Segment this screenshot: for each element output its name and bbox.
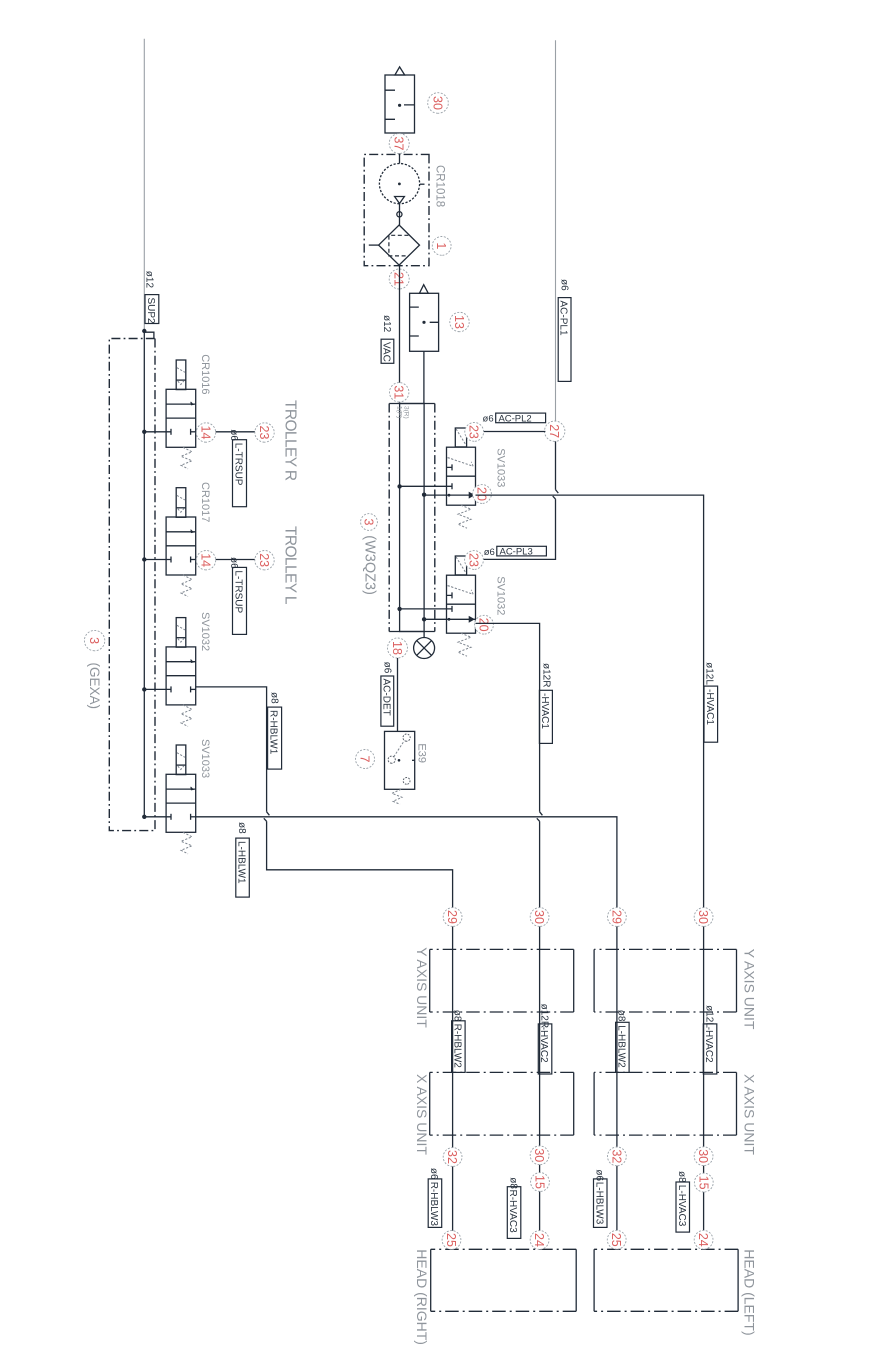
valve CR1016 body	[166, 389, 196, 447]
node	[397, 484, 401, 488]
svg-text:HEAD (LEFT): HEAD (LEFT)	[742, 1249, 758, 1335]
spring SV1033	[181, 832, 192, 854]
svg-text:31: 31	[392, 385, 406, 399]
svg-text:18: 18	[390, 641, 404, 655]
svg-text:ø6: ø6	[594, 1169, 605, 1181]
node bus junction SV1032	[142, 687, 146, 691]
label oe12L -HVAC1	[704, 662, 718, 742]
node	[422, 617, 426, 621]
balloon 23 PL3	[465, 551, 484, 570]
port circle small	[397, 212, 402, 217]
balloon 14	[196, 423, 215, 442]
balloon 25	[442, 1231, 461, 1250]
valve V1 ticks	[385, 90, 415, 119]
svg-text:L-TRSUP: L-TRSUP	[233, 570, 244, 613]
svg-text:AC-PL3: AC-PL3	[500, 547, 533, 558]
svg-text:30: 30	[696, 910, 710, 924]
valve SV1032 flow path	[144, 688, 171, 690]
svg-text:21: 21	[392, 272, 406, 286]
label oe6 L-HBLW3	[593, 1169, 607, 1227]
balloon 15	[531, 1173, 550, 1192]
label oe12L -HVAC2	[703, 1005, 717, 1074]
label oe12R -HVAC1	[539, 663, 552, 743]
svg-text:(GEXA): (GEXA)	[87, 663, 102, 710]
valve SV1033 body	[447, 447, 476, 505]
svg-text:L-HVAC3: L-HVAC3	[676, 1185, 687, 1227]
svg-text:L-HBLW3: L-HBLW3	[593, 1182, 604, 1225]
valve SV1032 body	[166, 647, 196, 705]
valve V2 ticks	[410, 307, 439, 336]
svg-text:HEAD (RIGHT): HEAD (RIGHT)	[414, 1249, 430, 1345]
svg-text:25: 25	[609, 1233, 623, 1247]
svg-text:X AXIS UNIT: X AXIS UNIT	[742, 1074, 758, 1155]
balloon 7	[356, 750, 375, 769]
manifold body	[400, 404, 425, 632]
svg-text:23: 23	[467, 425, 481, 439]
svg-text:ø6: ø6	[559, 279, 570, 291]
svg-text:1(P): 1(P)	[396, 406, 403, 418]
svg-text:SUP2: SUP2	[145, 298, 156, 325]
solenoid SV1033	[455, 428, 466, 447]
manifold end caps	[389, 404, 435, 632]
balloon 32	[608, 1147, 627, 1166]
wire SV1033R flow	[424, 494, 446, 496]
valve CR1016 flow path	[144, 431, 171, 433]
svg-text:TROLLEY L: TROLLEY L	[282, 526, 299, 605]
wire row-A line1	[452, 917, 454, 1249]
wire row-B line2	[703, 917, 705, 1249]
svg-text:X AXIS UNIT: X AXIS UNIT	[414, 1074, 430, 1155]
svg-text:ø8: ø8	[507, 1177, 518, 1189]
label oe6 AC-PL3 (rotated)	[484, 546, 547, 558]
node junction SUP2-to-bus	[142, 329, 146, 333]
wire CR1018 to manifold	[399, 266, 401, 404]
wire V1 to CR1018	[399, 133, 401, 164]
manifold boundary bottom (dash-dot)	[388, 404, 390, 632]
spring CR1017	[181, 575, 192, 597]
balloon 21	[389, 269, 409, 289]
balloon (3) left group	[84, 630, 104, 650]
valve SV1032 flow line	[447, 618, 476, 620]
wire SV1033R output	[476, 495, 704, 917]
svg-text:(W3QZ3): (W3QZ3)	[362, 535, 378, 595]
regulator gauge circle CR1018	[379, 164, 419, 204]
svg-text:30: 30	[431, 96, 445, 110]
regulator arrow	[395, 197, 405, 204]
svg-text:E39: E39	[416, 743, 428, 763]
label oe6 AC-DET	[380, 662, 393, 727]
svg-text:23: 23	[257, 426, 271, 440]
valve SV1033 flow line	[447, 494, 476, 496]
solenoid SV1033	[176, 745, 186, 775]
enclosure left valve group (dash-dot box)	[109, 339, 155, 831]
svg-text:20: 20	[477, 618, 491, 632]
label oe8 R-HBLW2	[451, 1010, 465, 1073]
svg-text:3: 3	[362, 519, 376, 526]
valve SV1032 pilot path (dashed)	[448, 586, 474, 595]
wire trolley output	[196, 559, 255, 561]
wire SV1033L output	[196, 817, 617, 917]
wire SV1032R port1	[400, 608, 447, 610]
svg-text:ø8: ø8	[236, 822, 247, 834]
svg-text:CR1018: CR1018	[433, 165, 445, 207]
label oe8 L-HVAC3	[676, 1171, 690, 1232]
wire break tick	[553, 490, 559, 500]
regulator center dot	[398, 183, 401, 186]
wire row-A line2	[539, 917, 541, 1249]
label oe8 L-HBLW1	[236, 822, 250, 897]
svg-text:ø8: ø8	[616, 1010, 627, 1022]
balloon 29	[608, 908, 627, 927]
wire V2 to manifold rail2	[423, 351, 425, 403]
svg-text:SV1033: SV1033	[199, 739, 211, 778]
svg-text:23: 23	[257, 553, 271, 567]
svg-text:32: 32	[445, 1150, 459, 1164]
wire SV1032R pilot	[465, 558, 484, 560]
wire AC-DET	[397, 658, 399, 731]
svg-text:R-HBLW2: R-HBLW2	[451, 1024, 462, 1069]
wire SV1033R port1	[400, 485, 447, 487]
balloon 15	[694, 1173, 713, 1192]
balloon 20 SV1033R	[473, 485, 492, 504]
svg-text:AC-PL1: AC-PL1	[558, 301, 569, 336]
wire left-group bus	[143, 331, 145, 817]
regulator adjust tick	[420, 183, 425, 185]
valve CR1017 body	[166, 517, 196, 575]
balloon 1	[432, 237, 451, 256]
svg-text:ø12L: ø12L	[704, 662, 715, 685]
label oe8 R-HBLW1	[268, 692, 282, 769]
label oe6 AC-PL2 (rotated)	[483, 413, 546, 424]
svg-text:13: 13	[452, 315, 466, 329]
wire SV1032R output	[476, 623, 540, 917]
svg-text:3: 3	[87, 637, 101, 644]
svg-text:32: 32	[609, 1149, 623, 1163]
svg-text:-HVAC2: -HVAC2	[538, 1027, 549, 1063]
svg-text:CR1017: CR1017	[199, 482, 211, 522]
wire SV1033R pilot	[465, 431, 545, 433]
svg-text:ø8: ø8	[452, 1010, 463, 1022]
svg-text:24: 24	[532, 1233, 546, 1247]
svg-text:SV1033: SV1033	[495, 448, 507, 487]
wire trolley output	[196, 431, 255, 433]
label oe8 L-HBLW2	[615, 1010, 629, 1073]
label oe6 L-TRSUP	[228, 557, 247, 634]
svg-text:L-TRSUP: L-TRSUP	[233, 443, 244, 486]
unit box Y-axis row-A	[573, 949, 575, 1012]
svg-text:ø6: ø6	[428, 1168, 439, 1180]
svg-text:30: 30	[696, 1149, 710, 1163]
balloon 30	[694, 1147, 713, 1166]
solenoid SV1032	[176, 618, 186, 648]
valve SV1033 pilot path (dashed)	[448, 458, 474, 467]
svg-text:ø12R: ø12R	[541, 663, 552, 687]
balloon 20 SV1032R	[475, 615, 494, 634]
filter element (dashed)	[389, 235, 409, 256]
svg-text:3(R): 3(R)	[403, 406, 410, 419]
wire stub at box corner	[144, 332, 154, 339]
svg-text:AC-PL2: AC-PL2	[498, 413, 531, 424]
valve V1 body	[385, 75, 415, 133]
balloon 14	[196, 551, 215, 570]
balloon 30	[530, 908, 549, 927]
unit box HEAD LEFT	[737, 1249, 739, 1311]
svg-text:30: 30	[532, 1148, 546, 1162]
check-valve V1 intake triangle	[395, 67, 405, 75]
svg-text:29: 29	[609, 910, 623, 924]
svg-text:SV1032: SV1032	[495, 576, 507, 615]
svg-text:ø8: ø8	[269, 692, 280, 704]
svg-text:R-HVAC3: R-HVAC3	[507, 1190, 518, 1234]
svg-text:-HVAC1: -HVAC1	[539, 693, 550, 729]
balloon 32	[443, 1148, 462, 1167]
exhaust muffler circle-X	[414, 638, 435, 659]
valve V2 intake triangle	[419, 285, 428, 294]
label oe8 R-HVAC3	[507, 1177, 521, 1238]
filter drain stub	[369, 244, 379, 246]
svg-text:ø6: ø6	[382, 662, 393, 674]
valve V1 dot	[398, 104, 401, 107]
svg-text:29: 29	[445, 910, 459, 924]
node	[422, 493, 426, 497]
node	[397, 607, 401, 611]
wire SV1032R flow	[424, 618, 446, 620]
unit box X-axis row-A	[573, 1072, 575, 1135]
label oe12 SUP2	[144, 271, 159, 324]
svg-text:25: 25	[444, 1233, 458, 1247]
svg-text:Y AXIS UNIT: Y AXIS UNIT	[414, 947, 430, 1028]
svg-text:1: 1	[434, 242, 448, 249]
spring SV1032	[458, 633, 471, 656]
wire SV1032L output	[196, 687, 453, 917]
wire AC-PL1 to SV1032R pilot	[484, 441, 556, 559]
valve SV1032 body	[447, 575, 476, 633]
svg-text:24: 24	[696, 1233, 710, 1247]
svg-text:14: 14	[199, 553, 213, 567]
valve V2 dot	[422, 321, 425, 324]
wire AC-PL1 (grey, from off-page)	[555, 40, 557, 421]
svg-text:VAC: VAC	[381, 342, 392, 362]
svg-text:L-HBLW2: L-HBLW2	[615, 1025, 626, 1068]
wire row-B line1	[616, 917, 618, 1249]
unit box X-axis row-B	[736, 1072, 738, 1135]
label oe12R -HVAC2	[538, 1004, 552, 1074]
balloon 27	[545, 421, 565, 441]
spring E39	[392, 789, 402, 804]
svg-text:7: 7	[358, 756, 372, 763]
svg-text:SV1032: SV1032	[199, 612, 211, 651]
svg-text:ø6: ø6	[484, 547, 495, 558]
valve CR1017 flow path	[144, 559, 171, 561]
balloon 24	[694, 1230, 713, 1249]
spring SV1032	[181, 705, 192, 727]
svg-text:30: 30	[532, 910, 546, 924]
spring SV1033	[458, 505, 471, 528]
svg-text:15: 15	[533, 1175, 547, 1189]
wire break tick	[264, 812, 270, 822]
svg-text:-HVAC2: -HVAC2	[703, 1027, 714, 1063]
wire break tick	[537, 812, 543, 822]
solenoid CR1016	[176, 360, 186, 390]
wire regulator-filter	[399, 204, 401, 225]
label oe6 R-HBLW3	[428, 1168, 442, 1228]
balloon 30 top	[428, 93, 449, 114]
svg-text:37: 37	[392, 137, 406, 151]
balloon 30	[530, 1146, 549, 1165]
svg-text:-HVAC1: -HVAC1	[704, 689, 715, 725]
svg-text:27: 27	[547, 424, 561, 438]
svg-text:TROLLEY R: TROLLEY R	[282, 400, 299, 481]
manifold boundary top (dash-dot)	[434, 404, 436, 632]
label oe12 VAC	[381, 315, 394, 363]
label oe6 AC-PL1	[558, 279, 571, 381]
filter diamond CR1018	[379, 225, 420, 265]
node bus junction SV1033	[142, 815, 146, 819]
valve SV1033 port ticks	[447, 483, 453, 489]
balloon 30	[694, 908, 713, 927]
svg-text:ø6: ø6	[483, 414, 494, 425]
node bus junction CR1017	[142, 557, 146, 561]
svg-text:ø12: ø12	[381, 315, 392, 333]
balloon 29	[443, 908, 462, 927]
svg-text:CR1016: CR1016	[199, 354, 211, 394]
valve SV1033 body	[166, 774, 196, 832]
valve V2 body	[410, 293, 439, 351]
svg-text:ø12L: ø12L	[703, 1005, 714, 1028]
svg-text:Y AXIS UNIT: Y AXIS UNIT	[742, 949, 758, 1030]
balloon 25	[607, 1230, 626, 1249]
svg-text:R-HBLW1: R-HBLW1	[268, 710, 279, 755]
solenoid SV1032	[455, 556, 466, 575]
solenoid CR1017	[176, 488, 186, 518]
svg-text:ø8: ø8	[676, 1171, 687, 1183]
unit box Y-axis row-B	[736, 949, 738, 1012]
svg-text:23: 23	[467, 553, 481, 567]
balloon 18	[388, 638, 408, 658]
balloon 31	[390, 383, 409, 402]
svg-text:20: 20	[475, 487, 489, 501]
balloon 24	[530, 1231, 549, 1250]
switch E39 contacts	[388, 734, 415, 784]
exhaust line	[423, 632, 425, 638]
svg-text:L-HBLW1: L-HBLW1	[236, 841, 247, 884]
balloon 23 trolley	[255, 551, 274, 570]
node bus junction CR1016	[142, 430, 146, 434]
spring CR1016	[181, 447, 192, 469]
valve SV1033 flow path	[144, 816, 171, 818]
balloon 37	[389, 134, 409, 154]
enclosure CR1018 (dash-dot box)	[364, 154, 429, 265]
label oe6 L-TRSUP	[228, 429, 247, 506]
unit box HEAD RIGHT	[575, 1249, 577, 1311]
switch E39 body	[385, 731, 415, 789]
balloon (3) manifold	[361, 514, 378, 531]
balloon 23 trolley	[255, 423, 274, 442]
balloon 23 PL2	[465, 423, 484, 442]
svg-text:14: 14	[199, 426, 213, 440]
svg-text:ø12: ø12	[144, 271, 155, 289]
svg-text:R-HBLW3: R-HBLW3	[428, 1182, 439, 1227]
wire supply SUP2 (grey, from off-page)	[143, 39, 145, 331]
valve SV1032 port ticks	[447, 606, 453, 612]
balloon 13	[450, 312, 469, 331]
svg-text:AC-DET: AC-DET	[380, 679, 391, 716]
svg-text:15: 15	[696, 1176, 710, 1190]
